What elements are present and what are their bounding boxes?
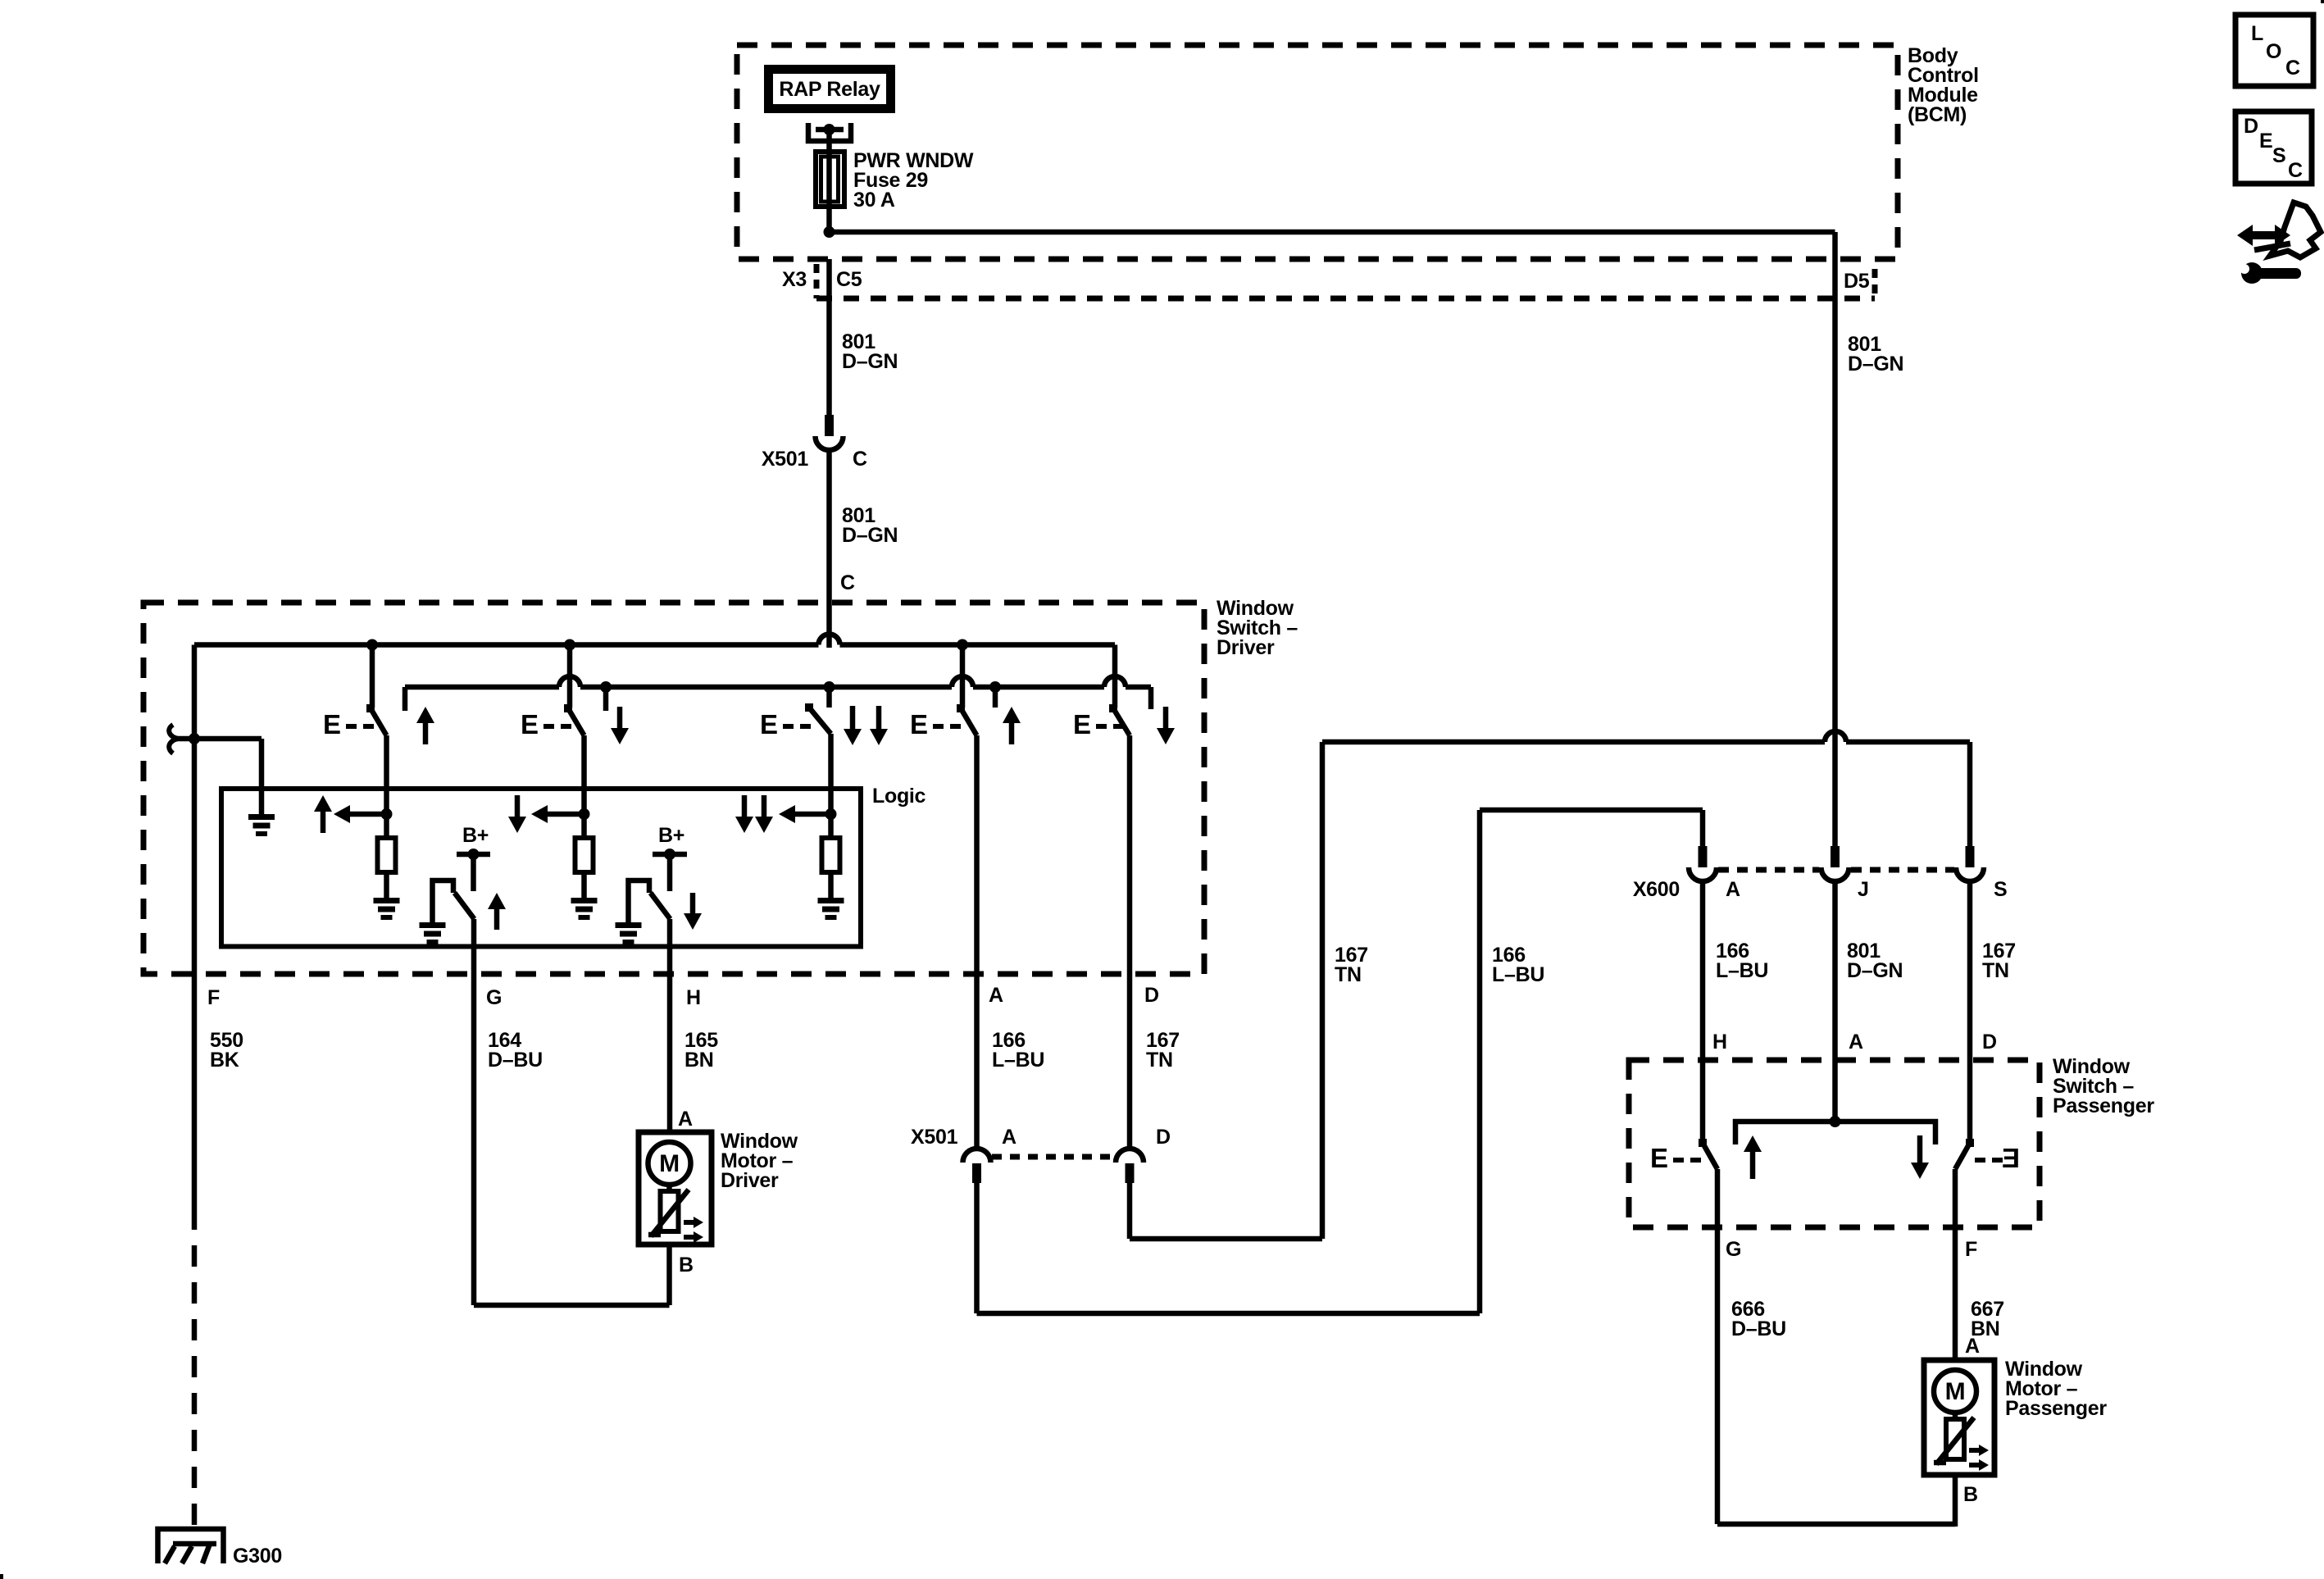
passenger switch F wire: [1953, 1169, 1958, 1336]
logic cell3 ground: [818, 898, 844, 903]
contact stub switch2: [603, 687, 609, 711]
direction arrow up switch4: [1003, 707, 1021, 723]
wire junction to BCM D5 drop: [830, 230, 1835, 235]
bus upper left drop to pin F: [192, 645, 198, 975]
svg-text:E: E: [760, 709, 778, 739]
driver motor circuit breaker: [661, 1191, 679, 1231]
passenger switch D E label: [2002, 1143, 2020, 1173]
passenger switch D blade: [1955, 1143, 1970, 1169]
svg-text:G300: G300: [233, 1545, 282, 1568]
switch2 output wire: [581, 735, 587, 814]
svg-text:D–BU: D–BU: [488, 1049, 543, 1072]
wire 166 bottom run: [977, 1311, 1480, 1317]
wire 801 vertical inside BCM right: [1832, 232, 1838, 259]
svg-text:Passenger: Passenger: [2005, 1397, 2107, 1420]
svg-text:RAP Relay: RAP Relay: [779, 78, 880, 101]
node bus upper switch2: [564, 639, 575, 651]
svg-text:Passenger: Passenger: [2053, 1094, 2154, 1117]
passenger motor M circle: [1934, 1370, 1976, 1413]
svg-text:O: O: [2266, 40, 2281, 63]
B+ switch G up arrow: [488, 893, 506, 909]
switch1 output wire: [384, 735, 389, 814]
driver motor breaker arrows: [684, 1220, 694, 1225]
B+ switch G contact bracket: [433, 881, 454, 922]
svg-text:D5: D5: [1844, 270, 1870, 293]
logic cell3 node: [825, 808, 837, 820]
connector X600 pin S: [1966, 846, 1975, 867]
RAP relay contact symbol: [808, 123, 851, 141]
hop bus lower over switch4: [952, 676, 973, 687]
passenger switch G wire: [1715, 1169, 1721, 1524]
hop bus lower over switch5: [1104, 676, 1126, 687]
direction arrow down switch2: [611, 728, 629, 744]
switch4 blade: [961, 708, 977, 735]
switch2 driver-down stub: [567, 645, 573, 708]
B+ switch H ground: [616, 922, 642, 928]
svg-text:A: A: [1965, 1335, 1980, 1358]
switch2 blade: [568, 708, 584, 735]
switch4 passenger-up stub: [960, 645, 966, 708]
logic cell3 left arrow: [779, 805, 795, 823]
logic cell3 wire to resistor: [828, 814, 834, 840]
svg-text:A: A: [1002, 1126, 1016, 1149]
node bus upper switch1: [366, 639, 378, 651]
logic cell2 left arrow: [531, 805, 548, 823]
Window Motor Driver box: [639, 1132, 712, 1245]
service icon double arrow: [2237, 225, 2290, 246]
svg-text:C: C: [2285, 57, 2300, 80]
connector X501 pin D: [1116, 1149, 1144, 1163]
logic cell1 wire to ground: [384, 872, 389, 899]
connector X501 pin A: [963, 1149, 991, 1163]
driver bus line lower: [405, 685, 559, 690]
wire 801 D-GN BCM to X600: [1832, 259, 1838, 846]
switch3 output wire: [828, 734, 834, 814]
hop bus lower over switch2: [559, 676, 580, 687]
B+ switch H wire: [667, 854, 673, 891]
LOC icon box: [2235, 15, 2313, 86]
svg-text:D–BU: D–BU: [1731, 1317, 1786, 1340]
switch3 blade: [809, 708, 831, 734]
svg-text:D–GN: D–GN: [1848, 353, 1903, 375]
direction arrow up switch1: [416, 707, 434, 723]
ground G300 symbol: [158, 1529, 224, 1563]
wire 667 to motor A: [1953, 1336, 1958, 1360]
svg-text:X501: X501: [762, 448, 809, 471]
svg-text:A: A: [1726, 878, 1740, 901]
node bus lower 801 feed: [824, 681, 835, 693]
svg-text:Driver: Driver: [721, 1169, 779, 1192]
svg-text:A: A: [1849, 1031, 1863, 1053]
switch5 passenger-down feed: [1112, 645, 1118, 708]
internal ground junction: [189, 733, 200, 744]
logic cell3 double down arrows: [735, 817, 753, 833]
svg-text:D: D: [1144, 984, 1159, 1007]
passenger feed node: [1830, 1116, 1841, 1127]
passenger contact bar: [1735, 1122, 1935, 1144]
svg-text:E: E: [2259, 130, 2272, 152]
passenger switch H blade: [1703, 1143, 1717, 1169]
wire continuation squiggle: [169, 725, 178, 753]
svg-text:C: C: [840, 571, 855, 594]
logic cell2 wire to resistor: [581, 814, 587, 840]
page edge mark top right: [2321, 0, 2324, 3]
wire 550 BK dashed to ground: [192, 1208, 198, 1531]
wire 167 below X501: [1127, 1183, 1133, 1239]
svg-text:TN: TN: [1146, 1049, 1173, 1072]
svg-text:A: A: [989, 984, 1003, 1007]
Window Motor Passenger box: [1924, 1360, 1994, 1475]
connector X600 pin A: [1699, 846, 1708, 867]
wire fuse to junction: [826, 207, 832, 232]
logic cell2 ground: [571, 898, 598, 903]
pin H output wire: [667, 919, 673, 1132]
svg-text:X3: X3: [782, 268, 807, 291]
switch5 blade: [1113, 708, 1130, 735]
logic cell1 up arrow: [314, 795, 332, 812]
B+ switch H contact bracket: [629, 881, 650, 922]
svg-text:M: M: [659, 1150, 680, 1177]
svg-text:S: S: [1994, 878, 2007, 901]
connector X501 pin C: [825, 415, 834, 436]
logic cell1 wire to resistor: [384, 814, 389, 840]
svg-text:D: D: [2244, 115, 2258, 138]
hop bus upper over 801 wire: [819, 635, 840, 645]
wire 801 X600 to passenger A: [1832, 884, 1838, 1060]
passenger up arrow: [1744, 1135, 1762, 1152]
wire 166 top run to X600: [1480, 808, 1703, 813]
service icon outline arrow: [2270, 202, 2321, 257]
svg-text:BK: BK: [210, 1049, 239, 1072]
fuse PWR WNDW Fuse 29 30A: [826, 152, 832, 207]
svg-text:X600: X600: [1633, 878, 1680, 901]
wire 167 X600 to passenger D: [1967, 884, 1973, 1060]
wire 801 inside passenger box: [1832, 1060, 1838, 1122]
logic cell2 down arrow: [508, 817, 526, 833]
wire 550 BK solid: [192, 974, 198, 1208]
wire 167 bottom run: [1130, 1236, 1322, 1242]
svg-text:Driver: Driver: [1217, 636, 1275, 659]
svg-text:X501: X501: [911, 1126, 958, 1149]
logic cell3 wire to ground: [828, 872, 834, 899]
wire 167 drop to X600 S: [1967, 742, 1973, 846]
bus lower right end contact stub: [1148, 687, 1154, 709]
switch3 express stub: [826, 687, 832, 708]
svg-text:TN: TN: [1982, 959, 2009, 982]
node bus lower contact4: [989, 681, 1001, 693]
wire 166 riser: [1477, 810, 1483, 1313]
svg-text:G: G: [486, 986, 502, 1009]
wire relay to fuse: [826, 130, 832, 153]
wire 167 riser: [1320, 742, 1326, 1239]
logic cell2 node: [579, 808, 590, 820]
svg-text:TN: TN: [1335, 963, 1362, 986]
connector X600 pin J: [1831, 846, 1840, 867]
passenger down arrow: [1911, 1163, 1929, 1179]
Window Switch Passenger dashed box: [1629, 1060, 2040, 1227]
wire driver motor B: [666, 1245, 672, 1305]
svg-text:B+: B+: [462, 824, 489, 847]
wire passenger motor B: [1953, 1475, 1958, 1527]
logic cell3 resistor: [822, 838, 840, 872]
svg-text:E: E: [1073, 709, 1091, 739]
svg-text:L–BU: L–BU: [992, 1049, 1044, 1072]
Window Switch Driver dashed box: [143, 603, 1204, 974]
svg-text:J: J: [1858, 878, 1869, 901]
logic cell1 ground: [374, 898, 400, 903]
wire 166 drop to X600 A: [1700, 810, 1706, 846]
direction arrow down switch5: [1157, 728, 1175, 744]
connector D5 boundary dashes: [1872, 269, 1878, 298]
svg-text:B: B: [679, 1254, 694, 1276]
switch1 driver-up stub: [370, 645, 375, 708]
svg-text:BN: BN: [684, 1049, 714, 1072]
svg-text:A: A: [678, 1108, 693, 1131]
svg-text:E: E: [2002, 1143, 2020, 1173]
Body Control Module (BCM) dashed box: [737, 45, 1898, 259]
svg-text:M: M: [1945, 1378, 1966, 1405]
wire 166 below X501: [974, 1183, 980, 1313]
passenger motor circuit breaker: [1946, 1419, 1964, 1459]
svg-text:F: F: [1965, 1238, 1977, 1261]
svg-text:B: B: [1963, 1483, 1978, 1506]
driver bus line upper: [194, 642, 819, 648]
logic cell2 resistor: [575, 838, 594, 872]
connector X3/C5 boundary dashes: [814, 264, 820, 298]
logic cell2 wire to ground: [581, 872, 587, 899]
svg-text:D–GN: D–GN: [842, 350, 898, 373]
svg-text:D–GN: D–GN: [1847, 959, 1903, 982]
svg-text:L: L: [2251, 22, 2263, 45]
X600 dotted line A-J: [1718, 867, 1819, 873]
wire 167 top run to X600: [1322, 739, 1825, 745]
junction node below fuse: [824, 226, 835, 238]
svg-text:L–BU: L–BU: [1716, 959, 1768, 982]
svg-text:S: S: [2272, 144, 2285, 167]
svg-text:(BCM): (BCM): [1908, 103, 1967, 126]
svg-text:H: H: [1712, 1031, 1727, 1053]
service icon wrench: [2252, 268, 2301, 279]
passenger switch H wire: [1700, 1060, 1706, 1143]
svg-text:B+: B+: [658, 824, 684, 847]
svg-text:Logic: Logic: [872, 785, 926, 808]
svg-text:L–BU: L–BU: [1492, 963, 1544, 986]
svg-text:F: F: [207, 986, 220, 1009]
B+ switch H blade: [651, 893, 671, 919]
svg-text:H: H: [686, 986, 701, 1009]
svg-text:E: E: [323, 709, 341, 739]
B+ terminal left: [457, 852, 490, 858]
node bus upper switch4: [957, 639, 968, 651]
B+ switch G ground: [420, 922, 446, 928]
switch1 blade: [371, 708, 387, 735]
B+ switch G wire: [471, 854, 476, 891]
X600 dotted line J-S: [1851, 867, 1954, 873]
DESC icon box: [2235, 111, 2312, 184]
ground branch corner: [259, 739, 265, 817]
svg-text:30 A: 30 A: [853, 189, 895, 212]
svg-text:C: C: [853, 448, 867, 471]
bus lower left end contact stub: [402, 687, 408, 711]
hop 167 over 801: [1825, 731, 1846, 742]
Logic box: [221, 789, 861, 947]
svg-text:E: E: [910, 709, 928, 739]
node bus lower contact2: [600, 681, 612, 693]
switch4 output wire pin A: [974, 735, 980, 1149]
wire 801 D-GN X501 to switch: [826, 450, 832, 648]
svg-text:G: G: [1726, 1238, 1741, 1261]
svg-text:E: E: [521, 709, 539, 739]
driver motor M circle: [648, 1142, 691, 1185]
svg-text:D: D: [1156, 1126, 1171, 1149]
logic cell1 node: [381, 808, 393, 820]
logic cell1 left arrow: [334, 805, 350, 823]
B+ switch H down arrow: [684, 913, 702, 930]
passenger motor breaker arrows: [1969, 1448, 1980, 1453]
passenger switch D wire: [1967, 1060, 1973, 1143]
svg-text:E: E: [1650, 1143, 1668, 1173]
wire 164 return run: [474, 1303, 670, 1308]
passenger motor wire M to breaker: [1953, 1413, 1958, 1419]
connector row dashed line X3..D5: [816, 296, 1875, 302]
svg-text:C: C: [2288, 159, 2303, 182]
RAP Relay box: [764, 65, 895, 113]
switch3 double down arrows: [844, 729, 862, 745]
svg-text:D: D: [1982, 1031, 1997, 1053]
switch5 output wire pin D: [1127, 735, 1133, 1149]
page edge mark bottom left: [0, 1574, 3, 1579]
pin G output wire: [471, 919, 477, 1305]
internal ground symbol: [248, 814, 275, 820]
X501 lower dotted line: [992, 1154, 1115, 1160]
svg-text:D–GN: D–GN: [842, 524, 898, 547]
wire 801 D-GN BCM C5 to X501: [826, 259, 832, 416]
contact stub switch4: [993, 687, 998, 708]
driver motor wire M to breaker: [666, 1185, 672, 1191]
wire 166 X600 to passenger H: [1700, 884, 1706, 1060]
B+ switch G blade: [455, 893, 475, 919]
B+ terminal right: [653, 852, 687, 858]
logic cell1 resistor: [378, 838, 396, 872]
svg-text:C5: C5: [836, 268, 862, 291]
wire 666 return run: [1717, 1522, 1955, 1527]
